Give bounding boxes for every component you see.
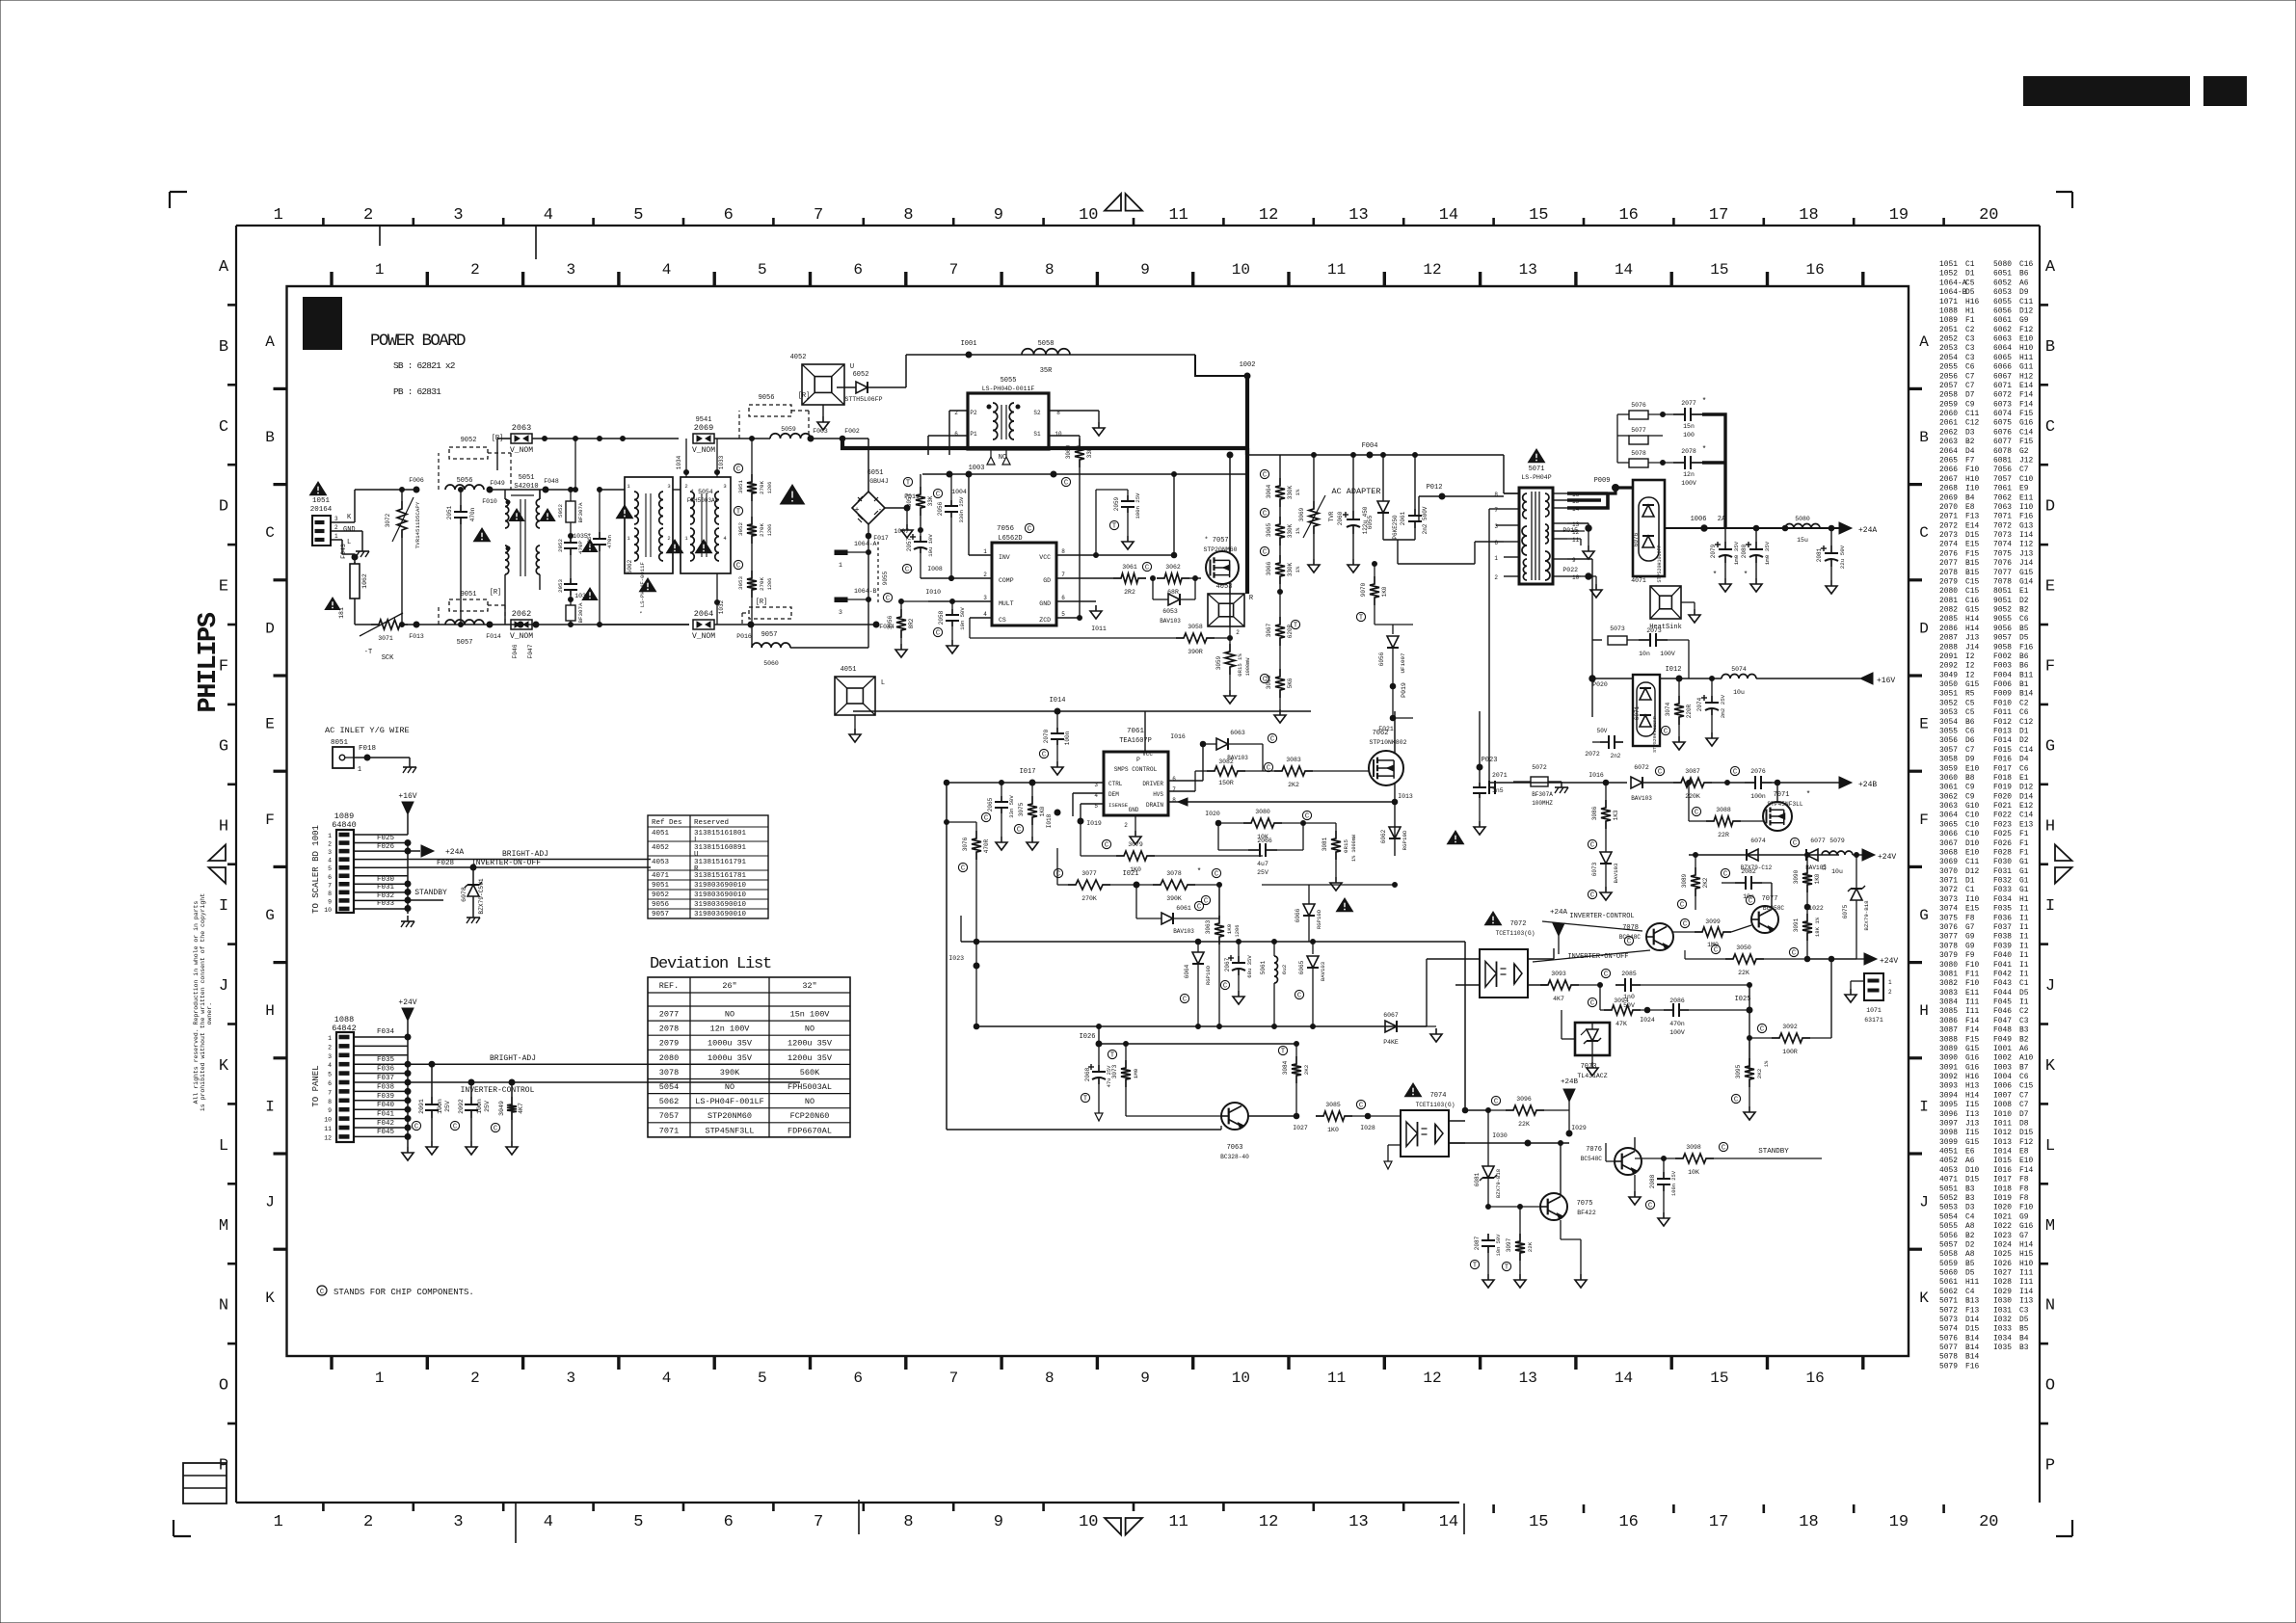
wire 1021 row to 7062 sense [1219,884,1395,886]
svg-text:8: 8 [1045,261,1055,279]
svg-text:C: C [1183,997,1187,1004]
svg-text:6072: 6072 [1993,391,2012,400]
warning triangle 7074 [1404,1083,1421,1097]
svg-text:2081: 2081 [1816,547,1823,562]
svg-text:2070: 2070 [1043,729,1050,743]
svg-text:9: 9 [1140,1370,1150,1387]
svg-text:DRAIN: DRAIN [1146,802,1163,809]
node 1028 [1365,1113,1371,1119]
svg-text:U: U [694,851,699,859]
svg-text:9: 9 [328,1107,332,1114]
svg-text:I2: I2 [1965,652,1975,661]
svg-text:BRIGHT-ADJ: BRIGHT-ADJ [490,1054,536,1063]
svg-text:2069: 2069 [1939,493,1958,502]
node 1025 [1747,1007,1752,1013]
svg-text:1089: 1089 [1939,316,1958,325]
wire +24V secondary branch [1689,854,1839,856]
svg-text:6051: 6051 [1993,270,2012,279]
svg-text:F017: F017 [1993,764,2012,773]
wire 3066 to divider tap [1279,584,1281,592]
svg-text:560K: 560K [800,1068,820,1078]
svg-text:G14: G14 [2019,577,2033,586]
svg-text:100: 100 [1683,432,1695,439]
svg-text:C5: C5 [1965,279,1975,287]
node P015 [1567,522,1589,524]
node F042 [405,1125,411,1131]
svg-text:H11: H11 [2019,354,2033,362]
svg-text:0R15 1%: 0R15 1% [1237,653,1243,677]
svg-text:2086: 2086 [1669,998,1685,1004]
svg-text:C: C [1590,892,1594,900]
node I012 [1676,676,1682,681]
svg-text:G7: G7 [1965,923,1975,932]
wire DRAIN pin8 HVS [1168,801,1395,803]
svg-text:7: 7 [1061,572,1065,578]
svg-text:*: * [1702,397,1707,406]
svg-text:4053: 4053 [652,859,670,866]
svg-text:1% 1000mW: 1% 1000mW [1351,834,1357,862]
wire 7072 wiring [1427,958,1480,960]
capacitor 2073 10n 100V [1639,639,1650,641]
svg-text:D: D [2045,498,2055,517]
svg-text:1: 1 [983,548,987,555]
svg-text:2088: 2088 [1939,643,1958,652]
svg-text:10: 10 [324,1117,332,1124]
wire CS pin4 [970,617,992,619]
svg-text:63171: 63171 [1864,1017,1883,1024]
node F004 [1367,452,1373,458]
svg-text:3087: 3087 [1939,1026,1958,1035]
fuse 1062 1G2 [350,564,360,599]
svg-text:1%: 1% [1764,1060,1770,1067]
svg-text:F16: F16 [2019,513,2033,521]
svg-text:H12: H12 [2019,372,2033,381]
svg-text:I026: I026 [1080,1033,1096,1041]
node 1032 [715,600,720,605]
svg-text:I: I [265,1098,275,1115]
wire VCC riser 7061 [1144,711,1146,752]
svg-text:P: P [1136,757,1140,763]
svg-text:PHILIPS: PHILIPS [195,612,224,712]
svg-text:I: I [2045,897,2055,916]
node 1006 output 2A [1665,527,1704,529]
svg-text:O: O [219,1377,228,1396]
node P016 [748,622,754,627]
wire 6071 connections [1592,716,1633,718]
svg-text:L: L [219,1137,228,1156]
svg-text:C: C [1792,950,1796,958]
svg-text:G15: G15 [1965,606,1979,615]
svg-text:H: H [1919,1002,1929,1020]
wire 7076 emitter ground [1634,1175,1636,1191]
svg-text:13: 13 [1348,206,1368,225]
svg-text:C: C [1263,549,1267,557]
node 1017 [1029,780,1035,785]
svg-text:2057: 2057 [906,537,913,551]
wire 7057 drain to bus [1229,455,1231,553]
wire mains L down [331,539,342,541]
svg-text:22R: 22R [1718,832,1729,838]
svg-text:B: B [2045,338,2055,357]
svg-text:10n: 10n [1743,893,1754,900]
svg-text:I016: I016 [1589,772,1604,779]
svg-text:1007: 1007 [894,528,909,535]
svg-text:H1: H1 [1965,306,1975,315]
node 1027 [1248,1115,1296,1117]
diode 6077 BAV103 [1806,849,1818,861]
wire F010 to choke [490,489,505,491]
svg-text:4: 4 [544,1513,553,1531]
svg-text:9: 9 [994,206,1003,225]
svg-text:2: 2 [470,1370,480,1387]
zener 6075 BZX79-B18 [1855,855,1857,889]
connector 1071 63171 [1864,973,1883,1000]
svg-text:D8: D8 [2019,1119,2029,1128]
resistor 3053 270K 1206 [747,571,757,598]
svg-text:25V: 25V [444,1101,451,1112]
svg-text:CTRL: CTRL [1108,781,1123,787]
svg-text:6: 6 [853,261,863,279]
svg-text:3099: 3099 [1705,918,1721,925]
svg-text:C: C [414,1124,418,1131]
svg-text:7: 7 [814,206,823,225]
svg-text:1K0: 1K0 [1226,923,1233,934]
svg-text:F15: F15 [2019,438,2033,446]
svg-text:330K: 330K [1287,523,1294,538]
svg-text:F003: F003 [813,428,828,435]
svg-text:9057: 9057 [761,631,778,639]
svg-text:G: G [219,737,228,756]
node 1031 [569,598,574,602]
svg-text:8: 8 [328,891,332,897]
svg-text:J13: J13 [2019,549,2033,558]
svg-text:F025: F025 [377,835,395,842]
svg-text:10: 10 [1572,574,1580,581]
svg-text:F016: F016 [1993,756,2012,764]
svg-text:I019: I019 [1993,1194,2012,1203]
svg-text:F047: F047 [527,644,534,658]
svg-text:2: 2 [328,1044,332,1051]
svg-text:F044: F044 [1993,989,2012,998]
svg-text:D3: D3 [1965,428,1975,437]
svg-text:C: C [1204,898,1208,906]
svg-text:T: T [1359,615,1363,623]
svg-text:I010: I010 [925,589,941,596]
svg-text:I014: I014 [1993,1148,2012,1157]
svg-text:C: C [1658,769,1662,777]
svg-text:GND: GND [1039,600,1051,607]
stub 1064-A [835,550,847,555]
svg-text:F8: F8 [2019,1194,2029,1203]
svg-text:25V: 25V [1257,869,1268,876]
svg-text:All rights reserved. Reproduct: All rights reserved. Reproduction in who… [193,901,200,1104]
svg-text:+24V: +24V [398,998,416,1007]
svg-text:2074: 2074 [1696,697,1703,711]
resistor 3083 2K2 [1263,770,1274,772]
svg-text:22K: 22K [1738,970,1749,976]
capacitor 2058 10n 50V [951,601,953,609]
svg-text:F: F [1919,811,1929,829]
svg-text:INV: INV [999,554,1010,561]
transistor 7075 BF422 [1540,1193,1567,1220]
svg-text:2067: 2067 [1939,475,1958,484]
svg-text:C10: C10 [2019,475,2033,484]
svg-text:4051: 4051 [1939,1148,1958,1157]
svg-text:I1: I1 [2019,998,2029,1007]
svg-text:I10: I10 [1965,485,1979,493]
svg-text:2055: 2055 [1939,363,1958,372]
wire 5055 primary feeds [949,410,968,412]
svg-text:J14: J14 [2019,559,2033,568]
node F028 [470,865,476,870]
svg-text:B8: B8 [1965,774,1975,783]
svg-text:STANDS FOR CHIP COMPONENTS.: STANDS FOR CHIP COMPONENTS. [334,1288,474,1297]
svg-text:E9: E9 [2019,485,2029,493]
svg-text:3092: 3092 [1939,1073,1958,1081]
svg-text:2068: 2068 [1939,485,1958,493]
svg-text:H11: H11 [1965,1278,1979,1287]
resistor 3097 22K [1519,1207,1521,1234]
wire INV pin1 [969,554,992,556]
svg-text:270K: 270K [759,523,765,537]
svg-text:COMP: COMP [999,577,1014,584]
svg-text:C: C [1105,842,1108,850]
svg-text:9055: 9055 [882,571,889,585]
transistor 7078 BC848C [1646,923,1673,950]
capacitor 2087 10n 50V [1487,1207,1489,1234]
svg-text:6053: 6053 [1993,288,2012,297]
wire 5055 sec pin8 ground [1049,410,1099,412]
svg-text:DEM: DEM [1108,791,1119,798]
node F034 [405,1034,411,1040]
resistor 3050 22K [1725,954,1764,964]
svg-text:9: 9 [1140,261,1150,279]
svg-text:5073: 5073 [1610,625,1625,632]
svg-text:F037: F037 [377,1075,394,1082]
fold mark bottom x535 [515,1503,517,1543]
diode 6062 RGP10D [1394,822,1396,824]
node P009 [1613,485,1619,492]
svg-text:I029: I029 [1993,1288,2012,1296]
svg-text:12: 12 [1423,261,1441,279]
svg-text:6071: 6071 [1634,705,1641,720]
svg-text:E15: E15 [1965,905,1979,914]
resistor 3089 2K2 vertical [1695,855,1696,867]
svg-text:100V: 100V [1669,1029,1685,1036]
svg-text:C6: C6 [2019,708,2029,717]
svg-text:5: 5 [758,261,767,279]
svg-text:3055: 3055 [1939,728,1958,736]
MOSFET 7071 STP45NF3LL sync switch [1763,802,1792,831]
svg-text:T: T [1505,1264,1508,1272]
svg-text:313815161791: 313815161791 [694,859,747,866]
svg-text:NO: NO [725,1082,734,1092]
svg-text:3056: 3056 [1939,736,1958,745]
svg-text:2065: 2065 [987,797,994,811]
svg-text:TCET1103(G): TCET1103(G) [1416,1102,1455,1108]
wire 1034 riser [685,439,687,477]
svg-text:7: 7 [949,261,959,279]
svg-text:H: H [265,1002,275,1020]
capacitor 5052 BF307A [570,490,572,501]
capacitor 2076 100n [1712,782,1745,784]
svg-text:F11: F11 [1965,970,1979,978]
svg-text:2067: 2067 [1224,957,1231,971]
svg-text:5055: 5055 [1939,1222,1958,1231]
svg-text:-T: -T [364,649,372,656]
svg-text:P2: P2 [970,410,977,416]
net STANDBY [408,899,443,901]
svg-text:F010: F010 [482,498,497,505]
svg-text:7071: 7071 [659,1126,679,1135]
svg-text:5054: 5054 [1939,1212,1958,1221]
svg-text:6053: 6053 [1162,608,1178,615]
svg-text:F033: F033 [1993,886,2012,894]
svg-text:F15: F15 [2019,410,2033,418]
svg-text:C2: C2 [2019,699,2029,707]
svg-text:1m0 35V: 1m0 35V [1764,541,1771,565]
svg-text:3096: 3096 [1516,1096,1532,1103]
svg-text:5057: 5057 [1939,1240,1958,1249]
svg-text:M: M [219,1217,228,1236]
svg-text:1033: 1033 [718,455,725,469]
svg-text:4053: 4053 [1939,1166,1958,1175]
svg-text:H13: H13 [1965,1082,1979,1091]
svg-text:6081: 6081 [1993,456,2012,465]
svg-text:F13: F13 [1965,513,1979,521]
svg-text:1M0: 1M0 [1133,1068,1139,1078]
svg-text:3065: 3065 [1939,820,1958,829]
svg-text:2065: 2065 [1939,456,1958,465]
svg-text:F018: F018 [359,745,376,753]
svg-text:D7: D7 [2019,1110,2029,1119]
svg-text:BAV103: BAV103 [1631,795,1652,802]
svg-text:*: * [1744,571,1749,579]
svg-text:2: 2 [363,1513,373,1531]
svg-text:D12: D12 [2019,784,2033,792]
resistor 3076 470R [975,822,977,831]
svg-text:C3: C3 [1965,335,1975,344]
node 1021 [1134,882,1139,888]
svg-text:C7: C7 [1965,746,1975,755]
svg-text:9052: 9052 [461,437,477,444]
thick wires 5071 secondary to rectifier [1567,492,1608,495]
wire connector 1088 pin fanout [354,1036,408,1038]
diode 6063 BAV103 [1203,743,1216,745]
svg-text:BZX79-C5V1: BZX79-C5V1 [478,878,485,914]
heatsink 1071 [1650,586,1681,619]
svg-text:STP10NK802: STP10NK802 [1369,739,1406,746]
svg-text:E10: E10 [1965,848,1979,857]
svg-text:3086: 3086 [1591,806,1598,820]
svg-text:D12: D12 [1965,867,1979,876]
svg-text:2069: 2069 [694,423,713,433]
svg-text:F033: F033 [377,900,395,908]
svg-text:3079: 3079 [1128,841,1143,848]
svg-text:319803690010: 319803690010 [694,901,747,909]
svg-text:4071: 4071 [1939,1176,1958,1184]
ferrite bead 4051 [835,677,875,715]
wire choke out top [505,489,571,491]
svg-text:C6: C6 [2019,764,2029,773]
svg-text:8: 8 [1045,1370,1055,1387]
svg-text:22u 50V: 22u 50V [1839,545,1846,569]
svg-text:REF.: REF. [659,981,679,991]
svg-text:BAV103: BAV103 [1613,863,1619,883]
svg-text:2073: 2073 [1646,627,1662,634]
svg-text:3088: 3088 [1716,807,1731,813]
warning triangle bridge [781,485,805,504]
fuse 2069 V_NOM [693,434,714,443]
svg-text:4: 4 [662,261,672,279]
svg-text:2072: 2072 [1585,751,1600,758]
svg-text:12n 100V: 12n 100V [710,1024,751,1034]
svg-text:C16: C16 [1965,597,1979,605]
svg-text:+16V: +16V [398,792,416,801]
outer ruler column ticks top [322,218,325,226]
svg-text:A8: A8 [1965,1250,1975,1259]
svg-text:POWER BOARD: POWER BOARD [370,332,466,351]
svg-text:1052: 1052 [1939,270,1958,279]
ground 3059 [1229,690,1231,696]
svg-text:2: 2 [983,572,987,578]
svg-text:2081: 2081 [1939,597,1958,605]
svg-text:2079: 2079 [1939,577,1958,586]
svg-text:I006: I006 [1993,1082,2012,1091]
svg-text:2060: 2060 [1337,511,1344,525]
inductor 5057 [445,620,484,625]
wire loop left side [946,783,948,1130]
svg-text:BC858C: BC858C [1763,905,1785,912]
svg-text:3082: 3082 [1939,979,1958,988]
svg-text:STP20NM60: STP20NM60 [1203,546,1237,553]
svg-text:C: C [886,596,890,603]
transistor 7063 BC328-40 [1221,1103,1248,1130]
resistor 3052 270K 1206 [747,517,757,544]
svg-text:7072: 7072 [1510,920,1527,928]
svg-text:2: 2 [1888,989,1892,996]
svg-text:3: 3 [453,1513,463,1531]
svg-text:2087: 2087 [1939,634,1958,643]
svg-text:BF307A: BF307A [577,502,584,522]
svg-text:9051: 9051 [652,882,670,890]
svg-text:E13: E13 [2019,820,2033,829]
svg-text:I15: I15 [1965,1101,1979,1109]
svg-text:RGP10D: RGP10D [1402,830,1408,850]
node F039 [405,1098,411,1104]
svg-text:220R: 220R [1686,704,1693,718]
svg-text:10u: 10u [1733,689,1745,696]
wire 1003 row [922,473,1247,475]
svg-text:5058: 5058 [1939,1250,1958,1259]
svg-text:is prohibited without the writ: is prohibited without the written consen… [200,893,206,1111]
svg-text:10: 10 [1055,431,1062,438]
svg-text:C6: C6 [1965,363,1975,372]
wire 7076 collector to 3098 [1634,1137,1636,1150]
svg-text:3065: 3065 [1266,522,1272,537]
svg-text:BC848C: BC848C [1619,934,1642,941]
varistor 3072 TVR14511 [401,490,403,501]
stub 1064-B [835,598,847,602]
svg-text:3092: 3092 [1782,1024,1798,1030]
svg-text:FDP6670AL: FDP6670AL [788,1126,832,1135]
svg-text:B13: B13 [1965,1297,1979,1306]
svg-text:7056: 7056 [1993,466,2012,474]
svg-text:B7: B7 [2019,1063,2029,1072]
capacitor 2088 100n 25V [1663,1158,1665,1172]
svg-text:E: E [2045,578,2055,597]
inductor 5056 [445,485,484,490]
